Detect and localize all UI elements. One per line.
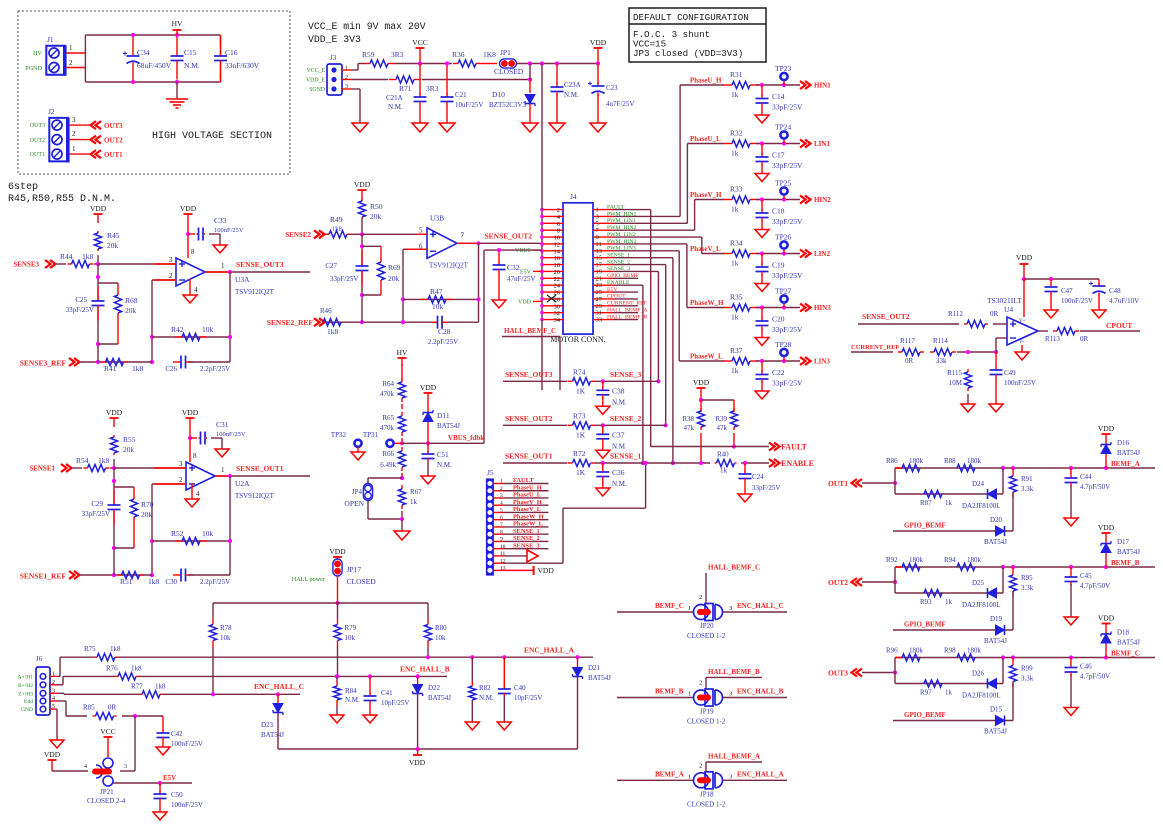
svg-text:U2A: U2A <box>235 479 250 488</box>
svg-text:BEMF_A: BEMF_A <box>1111 460 1140 468</box>
svg-text:33pF/25V: 33pF/25V <box>772 217 803 226</box>
svg-text:R93: R93 <box>920 598 932 606</box>
svg-text:4.7uF/10V: 4.7uF/10V <box>1109 297 1139 305</box>
svg-text:BAT54J: BAT54J <box>437 422 460 430</box>
svg-text:A+/H1: A+/H1 <box>18 674 34 680</box>
svg-text:3.3k: 3.3k <box>1021 675 1034 683</box>
svg-text:C28: C28 <box>438 327 451 336</box>
svg-text:C38: C38 <box>612 386 625 395</box>
svg-text:10k: 10k <box>435 634 446 642</box>
svg-text:C49: C49 <box>1004 369 1016 377</box>
svg-text:1k: 1k <box>731 205 739 214</box>
svg-text:SENSE1_REF: SENSE1_REF <box>20 572 67 581</box>
svg-text:PGND: PGND <box>25 65 42 72</box>
svg-text:3: 3 <box>72 116 76 124</box>
svg-text:33pF/25V: 33pF/25V <box>752 484 780 492</box>
svg-text:VDD: VDD <box>409 758 426 767</box>
svg-text:N.M.: N.M. <box>479 694 494 702</box>
svg-text:7: 7 <box>500 522 503 528</box>
svg-text:E5V: E5V <box>163 774 176 782</box>
svg-text:TSV912IQ2T: TSV912IQ2T <box>429 261 469 269</box>
svg-text:C44: C44 <box>1080 473 1092 481</box>
svg-text:VDD: VDD <box>1098 523 1115 532</box>
svg-text:SENSE_3: SENSE_3 <box>513 542 540 549</box>
svg-text:180k: 180k <box>967 457 982 465</box>
svg-text:33pF/25V: 33pF/25V <box>772 161 803 170</box>
svg-text:CLOSED 1-2: CLOSED 1-2 <box>687 800 726 808</box>
svg-text:TP28: TP28 <box>775 340 792 349</box>
svg-text:J1: J1 <box>47 35 54 44</box>
svg-text:C29: C29 <box>91 500 103 508</box>
svg-text:BAT54J: BAT54J <box>984 637 1007 645</box>
svg-text:OUT3: OUT3 <box>104 122 123 130</box>
svg-text:HV: HV <box>397 348 408 357</box>
svg-text:33pF/25V: 33pF/25V <box>772 379 803 388</box>
svg-text:20k: 20k <box>107 241 119 250</box>
svg-text:C27: C27 <box>325 262 337 270</box>
svg-text:R77: R77 <box>131 682 143 690</box>
svg-text:R91: R91 <box>1021 475 1033 483</box>
svg-text:R71: R71 <box>399 84 412 93</box>
svg-text:20k: 20k <box>123 445 135 454</box>
svg-text:100nF/25V: 100nF/25V <box>216 431 246 438</box>
svg-text:R64: R64 <box>382 380 394 388</box>
svg-text:2: 2 <box>699 680 702 687</box>
svg-text:N.M.: N.M. <box>612 480 627 488</box>
svg-text:HALL_BEMF_C: HALL_BEMF_C <box>708 564 760 572</box>
svg-text:3: 3 <box>124 764 127 770</box>
svg-text:SENSE_OUT3: SENSE_OUT3 <box>505 370 553 379</box>
svg-text:2.2pF/25V: 2.2pF/25V <box>428 338 458 346</box>
svg-text:R114: R114 <box>933 337 948 345</box>
svg-text:LIN1: LIN1 <box>814 140 830 148</box>
svg-text:C51: C51 <box>437 451 449 459</box>
svg-text:R51: R51 <box>120 577 133 586</box>
svg-text:VDD: VDD <box>420 383 437 392</box>
svg-text:R96: R96 <box>886 647 898 655</box>
svg-text:8: 8 <box>500 529 503 535</box>
svg-text:9: 9 <box>500 537 503 543</box>
svg-text:V-: V- <box>1019 340 1024 345</box>
svg-text:180k: 180k <box>967 556 982 564</box>
svg-text:OUT1: OUT1 <box>30 152 45 158</box>
svg-text:R34: R34 <box>730 239 743 248</box>
svg-text:1k8: 1k8 <box>132 364 144 373</box>
svg-text:R59: R59 <box>362 50 375 59</box>
svg-text:4: 4 <box>500 500 503 506</box>
svg-text:180k: 180k <box>909 457 924 465</box>
svg-text:J3: J3 <box>330 54 337 62</box>
svg-text:8: 8 <box>193 452 197 460</box>
svg-text:1k8: 1k8 <box>155 682 166 690</box>
svg-text:R50: R50 <box>370 202 383 211</box>
svg-text:SGND: SGND <box>309 87 325 93</box>
svg-text:VDD: VDD <box>590 38 607 47</box>
svg-text:JP17: JP17 <box>347 565 362 574</box>
svg-text:PhaseW_H: PhaseW_H <box>513 513 544 520</box>
svg-text:4: 4 <box>194 286 198 294</box>
svg-text:SENSE_OUT2: SENSE_OUT2 <box>862 312 910 321</box>
svg-text:0R: 0R <box>990 310 999 318</box>
svg-text:R66: R66 <box>382 450 394 458</box>
svg-text:DA2JF8100L: DA2JF8100L <box>962 601 1001 609</box>
svg-text:VCC_E: VCC_E <box>307 68 326 74</box>
svg-text:BEMF_B: BEMF_B <box>655 688 684 696</box>
svg-text:3: 3 <box>179 460 183 468</box>
svg-text:TP31: TP31 <box>363 431 379 439</box>
svg-text:2: 2 <box>699 594 702 601</box>
svg-text:VDD: VDD <box>106 408 123 417</box>
svg-text:FAULT: FAULT <box>513 477 534 484</box>
svg-text:33pF/25V: 33pF/25V <box>66 306 94 314</box>
svg-text:HALL_BEMF_B: HALL_BEMF_B <box>708 668 760 676</box>
svg-text:C14: C14 <box>772 92 785 101</box>
svg-text:1k: 1k <box>731 313 739 322</box>
svg-text:GPIO_BEMF: GPIO_BEMF <box>904 621 946 629</box>
svg-text:N.M.: N.M. <box>184 61 200 70</box>
svg-text:FAULT: FAULT <box>781 443 807 452</box>
svg-text:C19: C19 <box>772 261 785 270</box>
svg-text:1k: 1k <box>720 467 728 475</box>
svg-text:20k: 20k <box>141 510 153 519</box>
svg-text:4: 4 <box>84 764 87 770</box>
svg-text:BAT54J: BAT54J <box>1117 548 1140 556</box>
svg-text:33nF/630V: 33nF/630V <box>225 61 260 70</box>
svg-text:1k: 1k <box>945 689 953 697</box>
svg-text:CURRENT_REF: CURRENT_REF <box>851 344 899 351</box>
svg-text:1k: 1k <box>945 598 953 606</box>
svg-text:C37: C37 <box>612 430 625 439</box>
svg-text:D24: D24 <box>972 480 985 488</box>
svg-text:CLOSED 2-4: CLOSED 2-4 <box>87 797 126 805</box>
svg-text:ENC_HALL_B: ENC_HALL_B <box>400 665 450 674</box>
svg-text:TP32: TP32 <box>331 431 347 439</box>
svg-text:3: 3 <box>500 493 503 499</box>
svg-text:BAT54J: BAT54J <box>1117 449 1140 457</box>
svg-text:C36: C36 <box>612 468 625 477</box>
svg-text:ENC_HALL_C: ENC_HALL_C <box>737 602 784 610</box>
svg-text:PhaseU_H: PhaseU_H <box>690 77 722 85</box>
svg-text:R112: R112 <box>948 310 963 318</box>
svg-text:J5: J5 <box>487 468 494 477</box>
svg-text:SENSE3_REF: SENSE3_REF <box>20 359 67 368</box>
svg-text:R40: R40 <box>717 451 729 459</box>
svg-text:1: 1 <box>69 44 73 52</box>
svg-text:Z+/H3: Z+/H3 <box>18 691 33 697</box>
svg-text:2: 2 <box>169 272 173 280</box>
svg-text:VDD: VDD <box>693 378 710 387</box>
svg-text:68uF/450V: 68uF/450V <box>137 61 172 70</box>
svg-text:SENSE_2: SENSE_2 <box>610 414 642 423</box>
svg-text:5: 5 <box>419 226 423 234</box>
svg-text:C41: C41 <box>381 689 393 697</box>
svg-text:10pF/25V: 10pF/25V <box>381 699 409 707</box>
svg-text:ENC_HALL_B: ENC_HALL_B <box>737 688 784 696</box>
svg-text:TSV912IQ2T: TSV912IQ2T <box>235 492 275 500</box>
svg-text:SENSE3: SENSE3 <box>13 261 39 269</box>
svg-text:3: 3 <box>729 773 732 780</box>
svg-text:HIN3: HIN3 <box>814 304 831 312</box>
svg-text:OUT1: OUT1 <box>104 151 123 159</box>
svg-text:C33: C33 <box>214 216 227 225</box>
svg-text:R36: R36 <box>452 50 465 59</box>
svg-text:GND: GND <box>21 707 33 713</box>
svg-text:3: 3 <box>169 256 173 264</box>
svg-text:10k: 10k <box>202 325 214 334</box>
svg-text:VCC: VCC <box>100 727 115 736</box>
svg-text:10uF/25V: 10uF/25V <box>455 101 483 109</box>
svg-text:SENSE_OUT1: SENSE_OUT1 <box>505 452 553 461</box>
svg-text:R39: R39 <box>715 415 727 423</box>
svg-text:3: 3 <box>729 691 732 698</box>
svg-text:B+/H2: B+/H2 <box>18 683 33 689</box>
svg-text:PhaseU_H: PhaseU_H <box>513 484 542 491</box>
svg-text:D15: D15 <box>990 706 1003 714</box>
svg-text:R85: R85 <box>83 704 95 712</box>
svg-text:OUT2: OUT2 <box>104 137 123 145</box>
svg-text:R73: R73 <box>573 411 586 420</box>
svg-text:2.2pF/25V: 2.2pF/25V <box>200 365 230 373</box>
svg-text:PhaseU_L: PhaseU_L <box>513 492 541 499</box>
svg-text:R41: R41 <box>104 364 117 373</box>
svg-text:D18: D18 <box>1117 629 1130 637</box>
svg-text:JP1: JP1 <box>500 48 511 57</box>
svg-text:1k8: 1k8 <box>327 327 339 336</box>
svg-text:D26: D26 <box>972 670 985 678</box>
svg-text:R78: R78 <box>220 624 232 632</box>
svg-text:C25: C25 <box>75 296 87 304</box>
svg-text:R88: R88 <box>944 457 956 465</box>
svg-text:1k: 1k <box>731 149 739 158</box>
svg-text:OUT3: OUT3 <box>30 123 45 129</box>
svg-text:1k: 1k <box>731 366 739 375</box>
svg-text:R95: R95 <box>1021 574 1033 582</box>
svg-text:R37: R37 <box>730 346 743 355</box>
svg-text:C46: C46 <box>1080 663 1092 671</box>
svg-text:R76: R76 <box>106 664 118 672</box>
svg-text:2: 2 <box>52 680 55 686</box>
svg-text:SENSE_OUT2: SENSE_OUT2 <box>505 414 553 423</box>
svg-text:DEFAULT CONFIGURATION: DEFAULT CONFIGURATION <box>633 12 749 23</box>
svg-text:R98: R98 <box>944 647 956 655</box>
svg-text:D17: D17 <box>1117 538 1130 546</box>
svg-text:C40: C40 <box>514 684 526 692</box>
svg-text:CPOUT: CPOUT <box>1106 321 1132 330</box>
svg-text:47nF/25V: 47nF/25V <box>507 275 535 283</box>
svg-text:0R: 0R <box>1080 335 1089 343</box>
svg-text:5: 5 <box>500 508 503 514</box>
svg-text:3: 3 <box>52 688 55 694</box>
svg-text:J6: J6 <box>36 655 43 663</box>
svg-text:R33: R33 <box>730 185 743 194</box>
svg-text:PhaseV_H: PhaseV_H <box>513 499 542 506</box>
svg-text:VDD_E: VDD_E <box>306 78 325 84</box>
svg-text:C42: C42 <box>171 730 183 738</box>
svg-text:1k: 1k <box>731 90 739 99</box>
svg-text:SENSE_OUT3: SENSE_OUT3 <box>236 260 284 269</box>
svg-text:LIN3: LIN3 <box>814 358 830 366</box>
svg-text:Udd: Udd <box>24 699 34 705</box>
svg-text:R44: R44 <box>60 252 73 261</box>
svg-text:JP19: JP19 <box>700 708 714 716</box>
svg-text:3R3: 3R3 <box>391 50 404 59</box>
svg-text:4.7pF/50V: 4.7pF/50V <box>1080 483 1110 491</box>
svg-text:JP20: JP20 <box>700 622 714 630</box>
svg-text:SENSE_OUT2: SENSE_OUT2 <box>485 231 533 240</box>
svg-text:R92: R92 <box>886 556 898 564</box>
svg-text:C30: C30 <box>165 578 177 586</box>
svg-text:1k: 1k <box>945 499 953 507</box>
svg-text:BAT54J: BAT54J <box>588 674 611 682</box>
svg-text:JP4: JP4 <box>352 488 363 496</box>
svg-text:VDD: VDD <box>90 204 107 213</box>
svg-text:4.7pF/50V: 4.7pF/50V <box>1080 673 1110 681</box>
svg-text:C23A: C23A <box>564 81 581 89</box>
svg-text:1: 1 <box>500 479 503 485</box>
svg-text:2: 2 <box>699 762 702 769</box>
svg-text:D23: D23 <box>261 721 274 729</box>
svg-text:R68: R68 <box>125 296 138 305</box>
svg-text:470k: 470k <box>380 424 395 432</box>
svg-text:VCC: VCC <box>412 38 427 47</box>
svg-text:TSV912IQ2T: TSV912IQ2T <box>235 288 275 296</box>
svg-text:JP3 closed (VDD=3V3): JP3 closed (VDD=3V3) <box>633 48 743 59</box>
svg-text:ENC_HALL_A: ENC_HALL_A <box>737 770 784 778</box>
svg-text:VDD: VDD <box>44 750 61 759</box>
svg-text:HV: HV <box>172 19 183 28</box>
svg-text:VDD: VDD <box>354 180 371 189</box>
svg-text:4: 4 <box>196 490 200 498</box>
svg-text:470k: 470k <box>380 390 395 398</box>
svg-text:SENSE_OUT1: SENSE_OUT1 <box>236 464 284 473</box>
svg-text:BEMF_B: BEMF_B <box>1111 559 1140 567</box>
svg-text:1: 1 <box>52 671 55 677</box>
svg-text:1: 1 <box>345 66 348 72</box>
svg-text:R113: R113 <box>1045 335 1060 343</box>
svg-text:100nF/25V: 100nF/25V <box>1004 379 1036 387</box>
svg-text:D22: D22 <box>428 684 441 692</box>
svg-text:SENSE_2: SENSE_2 <box>513 535 540 542</box>
svg-text:1k: 1k <box>410 498 418 506</box>
svg-text:VDD: VDD <box>329 547 346 556</box>
svg-text:C31: C31 <box>216 420 229 429</box>
svg-text:0R: 0R <box>905 357 914 365</box>
svg-text:R72: R72 <box>573 449 586 458</box>
svg-text:D10: D10 <box>492 90 505 99</box>
svg-text:HIGH VOLTAGE SECTION: HIGH VOLTAGE SECTION <box>152 131 272 142</box>
svg-text:7: 7 <box>461 231 465 239</box>
svg-text:HIN2: HIN2 <box>814 196 831 204</box>
svg-text:2.2pF/25V: 2.2pF/25V <box>200 578 230 586</box>
svg-text:OUT2: OUT2 <box>828 578 848 587</box>
svg-text:ENC_HALL_A: ENC_HALL_A <box>524 646 575 655</box>
svg-text:V+: V+ <box>1019 319 1026 324</box>
svg-text:180k: 180k <box>909 647 924 655</box>
svg-text:10k: 10k <box>220 634 231 642</box>
svg-text:100nF/25V: 100nF/25V <box>1061 297 1093 305</box>
svg-text:C23: C23 <box>606 84 618 92</box>
svg-text:R79: R79 <box>345 624 357 632</box>
svg-text:10M: 10M <box>949 379 963 387</box>
svg-text:1k8: 1k8 <box>98 456 110 465</box>
svg-text:R42: R42 <box>171 325 184 334</box>
svg-text:R31: R31 <box>730 70 743 79</box>
svg-text:N.M.: N.M. <box>388 103 403 111</box>
svg-text:R47: R47 <box>430 287 443 296</box>
svg-text:SENSE2_REF: SENSE2_REF <box>267 318 314 327</box>
svg-text:R32: R32 <box>730 129 743 138</box>
svg-text:1k8: 1k8 <box>110 645 121 653</box>
svg-text:33: 33 <box>596 317 603 324</box>
svg-text:ENC_HALL_C: ENC_HALL_C <box>254 682 304 691</box>
svg-text:10k: 10k <box>202 529 214 538</box>
svg-text:180k: 180k <box>967 647 982 655</box>
svg-text:JP18: JP18 <box>700 790 714 798</box>
svg-text:ENABLE: ENABLE <box>781 459 814 468</box>
svg-text:1k8: 1k8 <box>131 664 142 672</box>
svg-text:JP21: JP21 <box>100 788 114 796</box>
svg-text:CLOSED: CLOSED <box>494 67 524 76</box>
svg-text:C18: C18 <box>772 207 785 216</box>
svg-text:DA2JF8100L: DA2JF8100L <box>962 502 1001 510</box>
svg-text:R65: R65 <box>382 414 394 422</box>
svg-text:1k: 1k <box>731 259 739 268</box>
svg-text:1k8: 1k8 <box>82 252 94 261</box>
svg-text:33pF/25V: 33pF/25V <box>772 271 803 280</box>
svg-text:OUT2: OUT2 <box>30 138 45 144</box>
svg-text:OPEN: OPEN <box>344 499 364 508</box>
svg-text:BZT52C3V3: BZT52C3V3 <box>489 101 526 109</box>
svg-text:33pF/25V: 33pF/25V <box>772 103 803 112</box>
svg-text:PhaseW_H: PhaseW_H <box>690 299 724 307</box>
svg-text:R75: R75 <box>84 645 96 653</box>
svg-text:1: 1 <box>221 262 225 270</box>
svg-text:VDD: VDD <box>182 408 199 417</box>
svg-text:C50: C50 <box>171 791 183 799</box>
svg-text:TP24: TP24 <box>775 123 792 132</box>
svg-text:VDD: VDD <box>538 566 555 575</box>
svg-text:CLOSED 1-2: CLOSED 1-2 <box>687 718 726 726</box>
svg-text:J2: J2 <box>48 107 55 116</box>
svg-text:TP25: TP25 <box>775 179 792 188</box>
svg-text:C22: C22 <box>772 368 785 377</box>
svg-text:VDD: VDD <box>1016 253 1033 262</box>
svg-text:BAT54J: BAT54J <box>984 538 1007 546</box>
svg-text:D21: D21 <box>588 664 601 672</box>
svg-text:BAT54J: BAT54J <box>428 694 451 702</box>
svg-text:C24: C24 <box>752 473 764 481</box>
svg-text:10pF/25V: 10pF/25V <box>514 694 542 702</box>
svg-text:LIN2: LIN2 <box>814 250 830 258</box>
svg-text:SENSE2: SENSE2 <box>285 231 311 239</box>
svg-text:CLOSED: CLOSED <box>347 577 377 586</box>
svg-text:BAT54J: BAT54J <box>261 731 284 739</box>
svg-text:3R3: 3R3 <box>426 84 439 93</box>
svg-text:20k: 20k <box>388 274 400 283</box>
svg-text:HALL_BEMF_C: HALL_BEMF_C <box>504 327 556 335</box>
svg-text:J4: J4 <box>570 192 577 201</box>
svg-text:0R: 0R <box>108 704 117 712</box>
svg-text:CLOSED 1-2: CLOSED 1-2 <box>687 632 726 640</box>
svg-text:VDD: VDD <box>518 299 532 305</box>
svg-text:D11: D11 <box>437 411 450 420</box>
svg-text:BAT54J: BAT54J <box>1117 639 1140 647</box>
svg-text:1k8: 1k8 <box>148 577 160 586</box>
svg-text:VBUS: VBUS <box>515 248 531 254</box>
svg-text:C20: C20 <box>772 315 785 324</box>
svg-text:5: 5 <box>52 704 55 710</box>
svg-text:33pF/25V: 33pF/25V <box>82 510 110 518</box>
